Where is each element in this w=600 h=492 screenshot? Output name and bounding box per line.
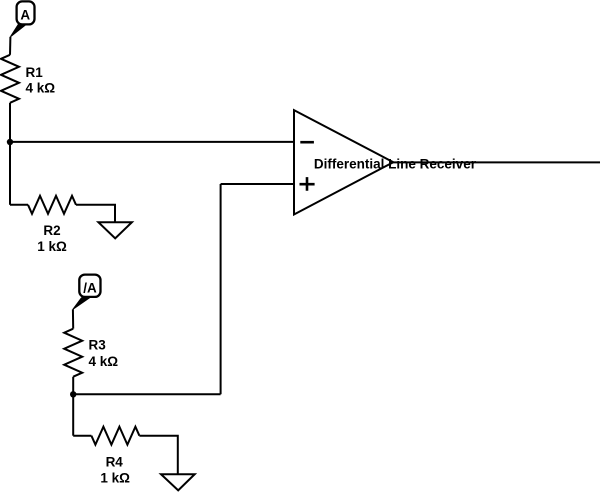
ground 2 (161, 474, 195, 490)
wire to op-amp plus input (221, 183, 294, 185)
resistor R1 (1, 55, 19, 103)
wire node 2 down to R4 (72, 394, 74, 435)
wire to R4 (73, 435, 91, 437)
svg-text:A: A (20, 7, 30, 22)
wire R4 to ground 2 (139, 436, 177, 474)
flag pointer /A (73, 298, 90, 309)
svg-text:Differential Line Receiver: Differential Line Receiver (314, 157, 477, 172)
junction node 2 (70, 391, 76, 397)
wire node 2 right (73, 393, 220, 395)
svg-text:/A: /A (83, 281, 97, 296)
wire R2 to ground 1 (76, 205, 115, 222)
wire R1 to node (9, 103, 11, 142)
op-amp minus symbol (300, 141, 314, 144)
svg-text:R2: R2 (43, 223, 60, 238)
resistor R4 (91, 427, 139, 445)
ground 1 (98, 222, 131, 238)
flag pointer A (10, 24, 26, 37)
resistor R2 (28, 196, 76, 214)
resistor R3 (64, 329, 82, 377)
svg-text:4 kΩ: 4 kΩ (89, 354, 119, 369)
net label /A (79, 275, 100, 297)
wire R3 to node 2 (72, 377, 74, 395)
op-amp U1 (294, 110, 393, 214)
svg-text:1 kΩ: 1 kΩ (37, 239, 67, 254)
svg-text:R4: R4 (106, 455, 124, 470)
wire to R2 (10, 204, 28, 206)
wire /A to R3 (72, 309, 74, 328)
wire op-amp output (393, 161, 600, 163)
net label A (17, 1, 35, 24)
wire A to R1 (9, 37, 11, 55)
svg-text:R3: R3 (89, 338, 107, 353)
wire node 1 to op-amp minus input (10, 141, 294, 143)
svg-text:R1: R1 (26, 65, 44, 80)
wire vertical up to plus input (220, 184, 222, 394)
svg-text:1 kΩ: 1 kΩ (100, 471, 130, 486)
wire node 1 down (9, 142, 11, 205)
svg-text:4 kΩ: 4 kΩ (26, 81, 56, 96)
junction node 1 (7, 139, 13, 145)
op-amp plus symbol (300, 177, 315, 191)
